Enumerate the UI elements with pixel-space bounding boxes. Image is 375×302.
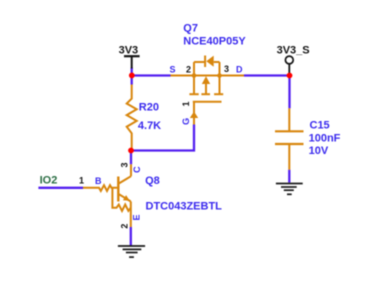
svg-text:C: C	[132, 166, 142, 173]
svg-text:D: D	[236, 65, 243, 75]
svg-text:R20: R20	[139, 102, 159, 114]
svg-text:2: 2	[120, 224, 130, 229]
svg-text:Q7: Q7	[183, 23, 198, 35]
svg-text:E: E	[132, 214, 142, 220]
svg-text:1: 1	[79, 176, 84, 186]
svg-text:100nF: 100nF	[309, 132, 341, 144]
svg-text:B: B	[95, 176, 102, 186]
svg-text:G: G	[181, 118, 191, 125]
svg-text:3V3_S: 3V3_S	[277, 44, 310, 56]
svg-text:4.7K: 4.7K	[138, 120, 161, 132]
svg-text:3V3: 3V3	[119, 44, 139, 56]
svg-text:NCE40P05Y: NCE40P05Y	[183, 36, 246, 48]
svg-text:DTC043ZEBTL: DTC043ZEBTL	[146, 201, 223, 213]
svg-text:2: 2	[186, 64, 191, 74]
svg-text:3: 3	[224, 64, 229, 74]
svg-text:Q8: Q8	[145, 175, 160, 187]
svg-text:3: 3	[119, 162, 129, 167]
svg-text:C15: C15	[310, 119, 330, 131]
svg-text:1: 1	[181, 101, 191, 106]
svg-text:10V: 10V	[309, 145, 329, 157]
svg-text:IO2: IO2	[40, 175, 58, 187]
svg-text:S: S	[170, 64, 176, 74]
